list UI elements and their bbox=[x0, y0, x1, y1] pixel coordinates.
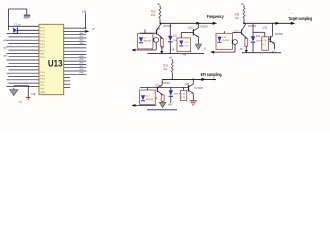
transistor Q27 value 2N3904 bbox=[248, 25, 257, 28]
capacitor C13 value label bbox=[23, 16, 28, 20]
IC U13 body bbox=[39, 24, 64, 94]
wire R28 down bbox=[243, 18, 245, 23]
resistor R34 value rows bbox=[181, 93, 186, 99]
arrow into rail group1 bbox=[160, 51, 163, 54]
value 1N4148 inside B3 bbox=[146, 99, 154, 101]
svg-text:Q30: Q30 bbox=[185, 84, 190, 86]
title EFI sampling bbox=[201, 72, 222, 77]
svg-text:+AB: +AB bbox=[168, 104, 173, 107]
wire Q25 emitter bbox=[161, 37, 163, 40]
designator inside B2 bbox=[222, 37, 227, 39]
svg-text:1N4148: 1N4148 bbox=[222, 40, 230, 42]
resistor R25 value bbox=[151, 14, 156, 17]
capacitor C15 circle bbox=[153, 38, 158, 43]
svg-text:ALE: ALE bbox=[80, 68, 85, 71]
crystal Y2 bbox=[13, 27, 17, 33]
power +5 group3 bbox=[169, 56, 173, 62]
wire diode D12 feed bbox=[252, 23, 254, 36]
diode D14 value 1N4148 bbox=[174, 93, 182, 95]
wire U14 top lead bbox=[180, 32, 182, 38]
ground rail group1 bbox=[148, 53, 205, 55]
svg-text:+AB: +AB bbox=[170, 48, 175, 51]
designator inside B1 bbox=[144, 37, 148, 39]
svg-text:2N3904: 2N3904 bbox=[163, 25, 172, 28]
transistor Q29 value 2N3904 bbox=[162, 83, 171, 85]
red net label +C mid bbox=[158, 86, 161, 88]
ground wire bottom-left bbox=[14, 86, 28, 98]
wire Q27 emitter bbox=[245, 37, 247, 40]
faint net text above title bbox=[288, 9, 294, 15]
transistor Q25 value 2N3904 bbox=[163, 25, 172, 28]
node junction R28 bbox=[243, 22, 245, 24]
svg-text:R33: R33 bbox=[163, 65, 168, 68]
svg-text:1N4148: 1N4148 bbox=[144, 41, 152, 43]
wire base Q25 bbox=[140, 32, 157, 34]
transistor Q28 bbox=[270, 36, 274, 44]
arrow input group3 bbox=[132, 104, 136, 107]
wire main group2 bbox=[244, 22, 292, 24]
capacitor C16b circle bbox=[232, 40, 237, 45]
resistor R24 label bbox=[82, 10, 87, 14]
diode D11 designator bbox=[173, 36, 178, 38]
svg-text:2N3904: 2N3904 bbox=[275, 33, 284, 36]
wire diode D14 feed bbox=[170, 87, 172, 90]
wire base row group3 bbox=[140, 86, 189, 88]
node junction end group3 bbox=[213, 79, 215, 81]
red net label -AB group2 input bbox=[239, 48, 243, 51]
resistor R28 designator bbox=[235, 14, 240, 17]
resistor R25 designator bbox=[151, 11, 156, 14]
svg-text:D12: D12 bbox=[256, 36, 261, 38]
resistor R35 value bbox=[154, 97, 158, 100]
svg-text:PSE: PSE bbox=[80, 72, 85, 74]
svg-text:PV1008: PV1008 bbox=[195, 88, 204, 90]
right pin net labels bbox=[80, 32, 85, 75]
svg-text:Frequency: Frequency bbox=[207, 14, 225, 19]
svg-text:1N4148: 1N4148 bbox=[146, 99, 154, 101]
wire R35 down bbox=[162, 101, 164, 102]
svg-text:EFI sampling: EFI sampling bbox=[201, 72, 222, 77]
wire B3 top lead bbox=[147, 87, 149, 90]
optocoupler U14 box bbox=[177, 38, 191, 52]
transistor Q27 designator bbox=[235, 31, 240, 33]
net label right of arrow bbox=[92, 27, 96, 30]
wire input group3 bbox=[132, 104, 156, 106]
capacitor C16 plates bbox=[26, 98, 30, 101]
wire Q26 collector bbox=[197, 23, 199, 27]
capacitor C16 value bbox=[18, 102, 22, 104]
svg-text:(C): (C) bbox=[262, 44, 265, 46]
svg-text:R25: R25 bbox=[151, 11, 156, 14]
red net label 90 group2 bbox=[272, 51, 275, 54]
wire D11 to rail bbox=[169, 42, 171, 53]
svg-text:+C: +C bbox=[158, 86, 161, 88]
capacitor C16 designator bbox=[32, 92, 37, 96]
ground rail group3 bbox=[147, 109, 177, 111]
connector box B2 bbox=[216, 33, 232, 49]
resistor R28 value bbox=[235, 17, 240, 20]
wire D14 down bbox=[170, 97, 172, 103]
wire pullup vertical bbox=[85, 13, 87, 28]
crystal Y2 designator bbox=[14, 22, 21, 26]
wire R30 to rail bbox=[245, 46, 247, 52]
transistor Q29 designator bbox=[155, 86, 160, 88]
resistor R25 bbox=[159, 7, 161, 18]
diode D12 designator bbox=[256, 36, 261, 38]
transistor Q30 value PV1008 bbox=[195, 88, 204, 90]
svg-text:-AB: -AB bbox=[160, 47, 164, 50]
optocoupler U14 diode bbox=[179, 41, 183, 46]
capacitor C13 bottom plate bbox=[24, 16, 30, 18]
ground symbol bottom-left bbox=[10, 90, 18, 96]
node junction Q26 arrow bbox=[196, 22, 200, 25]
arrow EFI sampling bbox=[202, 78, 207, 81]
resistor R33 bbox=[171, 61, 173, 72]
wire base Q27 bbox=[232, 32, 241, 34]
svg-text:GND: GND bbox=[40, 92, 45, 94]
node junction R25 bbox=[160, 23, 162, 25]
optocoupler U15 box bbox=[262, 37, 269, 51]
svg-text:U13: U13 bbox=[48, 58, 63, 68]
svg-text:2N3904: 2N3904 bbox=[199, 25, 208, 28]
wire crystal net 2 bbox=[17, 29, 39, 31]
svg-text:Q27: Q27 bbox=[235, 31, 240, 33]
arrow right pin row2 bbox=[85, 30, 89, 33]
wire U15 top lead bbox=[253, 32, 265, 37]
arrow input group2 bbox=[210, 51, 214, 54]
resistor R35 box bbox=[161, 95, 164, 101]
wire R29 to rail bbox=[161, 46, 163, 53]
arrow Target sampling bbox=[291, 22, 296, 25]
net label AN0 bbox=[4, 39, 9, 42]
node junction R33 bbox=[171, 79, 173, 81]
arrow input group1 bbox=[131, 49, 135, 52]
wire Q30 emitter bbox=[192, 93, 194, 100]
resistor R29 value bbox=[160, 47, 164, 50]
node junction Q30 bbox=[192, 79, 194, 81]
wire diode D11 feed bbox=[169, 23, 171, 36]
wire top-left loop bbox=[9, 9, 27, 30]
arrow Frequency bbox=[213, 22, 218, 25]
transistor Q25 bbox=[157, 24, 163, 38]
wire input group1 bbox=[132, 42, 156, 50]
wire B1 top lead bbox=[144, 30, 146, 34]
transistor Q29 bbox=[157, 85, 162, 95]
svg-text:4M: 4M bbox=[18, 24, 21, 26]
capacitor C13 top plate bbox=[24, 14, 30, 16]
wire main group3 bbox=[162, 78, 216, 80]
red net label -AB group1 bbox=[170, 48, 175, 51]
wire base Q26 bbox=[181, 31, 193, 33]
diode inside B2 bbox=[217, 37, 221, 43]
wire Q30 collector bbox=[192, 79, 194, 84]
ground rail group2 bbox=[242, 52, 281, 54]
IC U13 left pins bbox=[7, 34, 40, 87]
node junction Q28 arrow bbox=[275, 22, 279, 25]
wire R33 down bbox=[171, 72, 173, 79]
diode D12 value 1N4148 bbox=[256, 41, 264, 43]
power ground red Q30 bbox=[190, 101, 197, 105]
resistor R30 box bbox=[245, 39, 248, 47]
net label AN2 bbox=[4, 54, 9, 57]
red net label +5 group1 bbox=[203, 48, 206, 50]
svg-text:Q25: Q25 bbox=[156, 28, 161, 30]
wire Q28 emitter bbox=[274, 44, 276, 50]
wire Q28 collector bbox=[272, 23, 274, 36]
resistor R28 bbox=[243, 7, 245, 18]
resistor R34 box bbox=[180, 90, 187, 100]
diode D11 value 1N4148 bbox=[173, 40, 181, 42]
wire input group2 bbox=[211, 44, 235, 52]
wire D12 to rail bbox=[252, 43, 254, 53]
svg-text:2N3904: 2N3904 bbox=[162, 83, 171, 85]
title Target sampling bbox=[288, 16, 312, 21]
red designator Q28 small bbox=[263, 27, 268, 29]
svg-text:Q28: Q28 bbox=[263, 27, 268, 29]
connector box B1 bbox=[138, 34, 153, 49]
wire main group1 bbox=[160, 22, 214, 24]
diode D12 bbox=[251, 36, 255, 42]
wire R34 top lead bbox=[183, 87, 185, 90]
net label AN1 bbox=[4, 47, 9, 50]
diode D11 bbox=[168, 36, 172, 42]
svg-text:-AB: -AB bbox=[182, 54, 186, 57]
diode inside B1 bbox=[139, 37, 143, 43]
transistor Q30 bbox=[189, 84, 194, 94]
wire crystal net 1 bbox=[9, 25, 40, 27]
IC U13 right pins short bbox=[64, 78, 70, 88]
svg-text:2N3904: 2N3904 bbox=[248, 25, 257, 28]
svg-text:Q26: Q26 bbox=[188, 26, 193, 29]
diode D14 bbox=[169, 90, 173, 96]
svg-text:-AB: -AB bbox=[239, 48, 243, 51]
svg-text:X2a: X2a bbox=[23, 16, 28, 20]
value 1N4148 inside B2 bbox=[222, 40, 230, 42]
power +5 group1 bbox=[157, 2, 161, 8]
IC U13 left pin name column bbox=[40, 27, 45, 94]
transistor Q26 designator bbox=[188, 26, 193, 29]
optocoupler U15 value rows bbox=[262, 40, 267, 46]
IC U13 right pins long bbox=[64, 28, 87, 74]
svg-text:RST: RST bbox=[40, 54, 45, 56]
power +5 group2 bbox=[241, 2, 245, 8]
svg-text:Target sampling: Target sampling bbox=[288, 16, 312, 21]
red net label below U14 bbox=[182, 54, 186, 57]
resistor R33 designator bbox=[163, 65, 168, 68]
transistor Q26 bbox=[193, 28, 198, 37]
wire Q29 collector bbox=[161, 79, 163, 85]
optocoupler U14 value rows bbox=[184, 42, 189, 48]
wire R25 to junction bbox=[159, 18, 161, 23]
transistor Q27 bbox=[242, 24, 247, 38]
transistor Q25 designator bbox=[156, 28, 161, 30]
transistor Q26 value 2N3904 bbox=[199, 25, 208, 28]
transistor Q30 designator bbox=[185, 84, 190, 86]
arrow into rail group2 bbox=[245, 50, 248, 53]
ground symbol Q26 bbox=[195, 44, 201, 50]
resistor R29 box bbox=[160, 39, 163, 47]
junction pullup bbox=[85, 27, 87, 29]
diode inside B3 bbox=[141, 95, 145, 101]
wire Q26 emitter bbox=[197, 37, 199, 44]
value 1N4148 inside B1 bbox=[144, 41, 152, 43]
resistor R33 value bbox=[163, 68, 168, 71]
red net label +AB group3 bbox=[168, 104, 173, 107]
title Frequency bbox=[207, 14, 225, 19]
wire B2 top lead bbox=[224, 31, 226, 33]
designator inside B3 bbox=[146, 95, 151, 97]
IC U13 designator bbox=[48, 58, 63, 68]
ground symbol Q29 bbox=[159, 102, 165, 107]
transistor Q28 value 2N3904 bbox=[275, 33, 284, 36]
connector box B3 bbox=[140, 90, 156, 105]
wire base Q28 bbox=[269, 38, 271, 40]
